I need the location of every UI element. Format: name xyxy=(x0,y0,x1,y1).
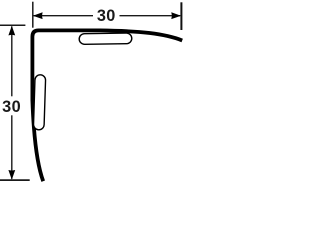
left dimension: top extension line xyxy=(0,24,25,26)
top dimension: left extension line xyxy=(32,2,34,28)
svg-text:30: 30 xyxy=(97,7,116,25)
angle profile body xyxy=(32,30,182,181)
top slot (horizontal leg) xyxy=(79,33,132,44)
left dimension: bottom extension line xyxy=(0,179,30,181)
left slot (vertical leg) xyxy=(33,75,45,130)
svg-text:30: 30 xyxy=(2,98,21,116)
left dimension up arrowhead xyxy=(8,26,15,36)
top dimension left arrowhead xyxy=(33,12,43,19)
left dimension line upper segment xyxy=(11,26,13,96)
top dimension line left segment xyxy=(34,15,93,17)
left dimension line lower segment xyxy=(11,115,13,179)
top dimension: right extension line xyxy=(180,2,182,30)
top dimension line right segment xyxy=(120,15,181,17)
left dimension down arrowhead xyxy=(8,170,15,180)
top dimension right arrowhead xyxy=(171,12,181,19)
